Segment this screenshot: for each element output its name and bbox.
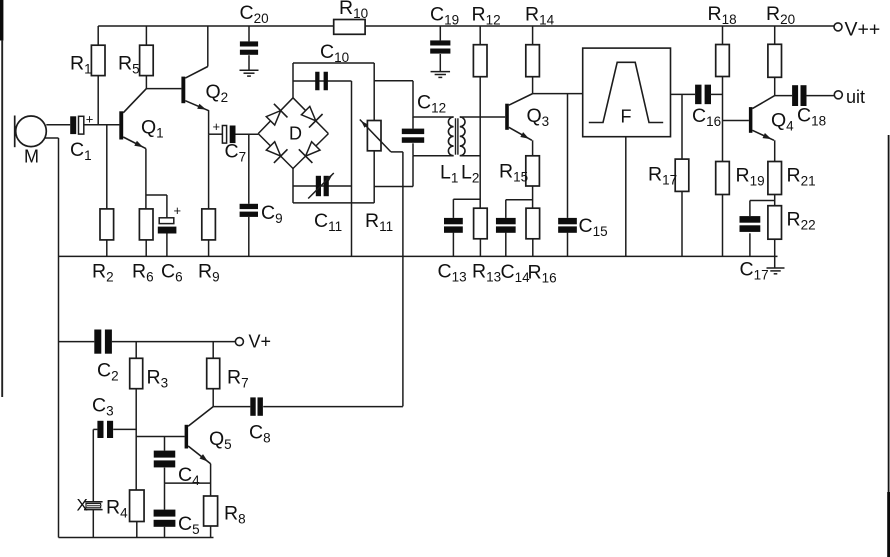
svg-text:V++: V++ — [845, 19, 881, 41]
svg-text:uit: uit — [846, 87, 865, 107]
svg-text:+: + — [213, 119, 221, 134]
svg-text:X: X — [77, 496, 88, 515]
svg-text:D: D — [289, 124, 302, 144]
svg-text:M: M — [24, 147, 39, 167]
svg-text:V+: V+ — [249, 332, 272, 352]
svg-text:+: + — [174, 203, 182, 218]
svg-text:F: F — [621, 107, 632, 127]
